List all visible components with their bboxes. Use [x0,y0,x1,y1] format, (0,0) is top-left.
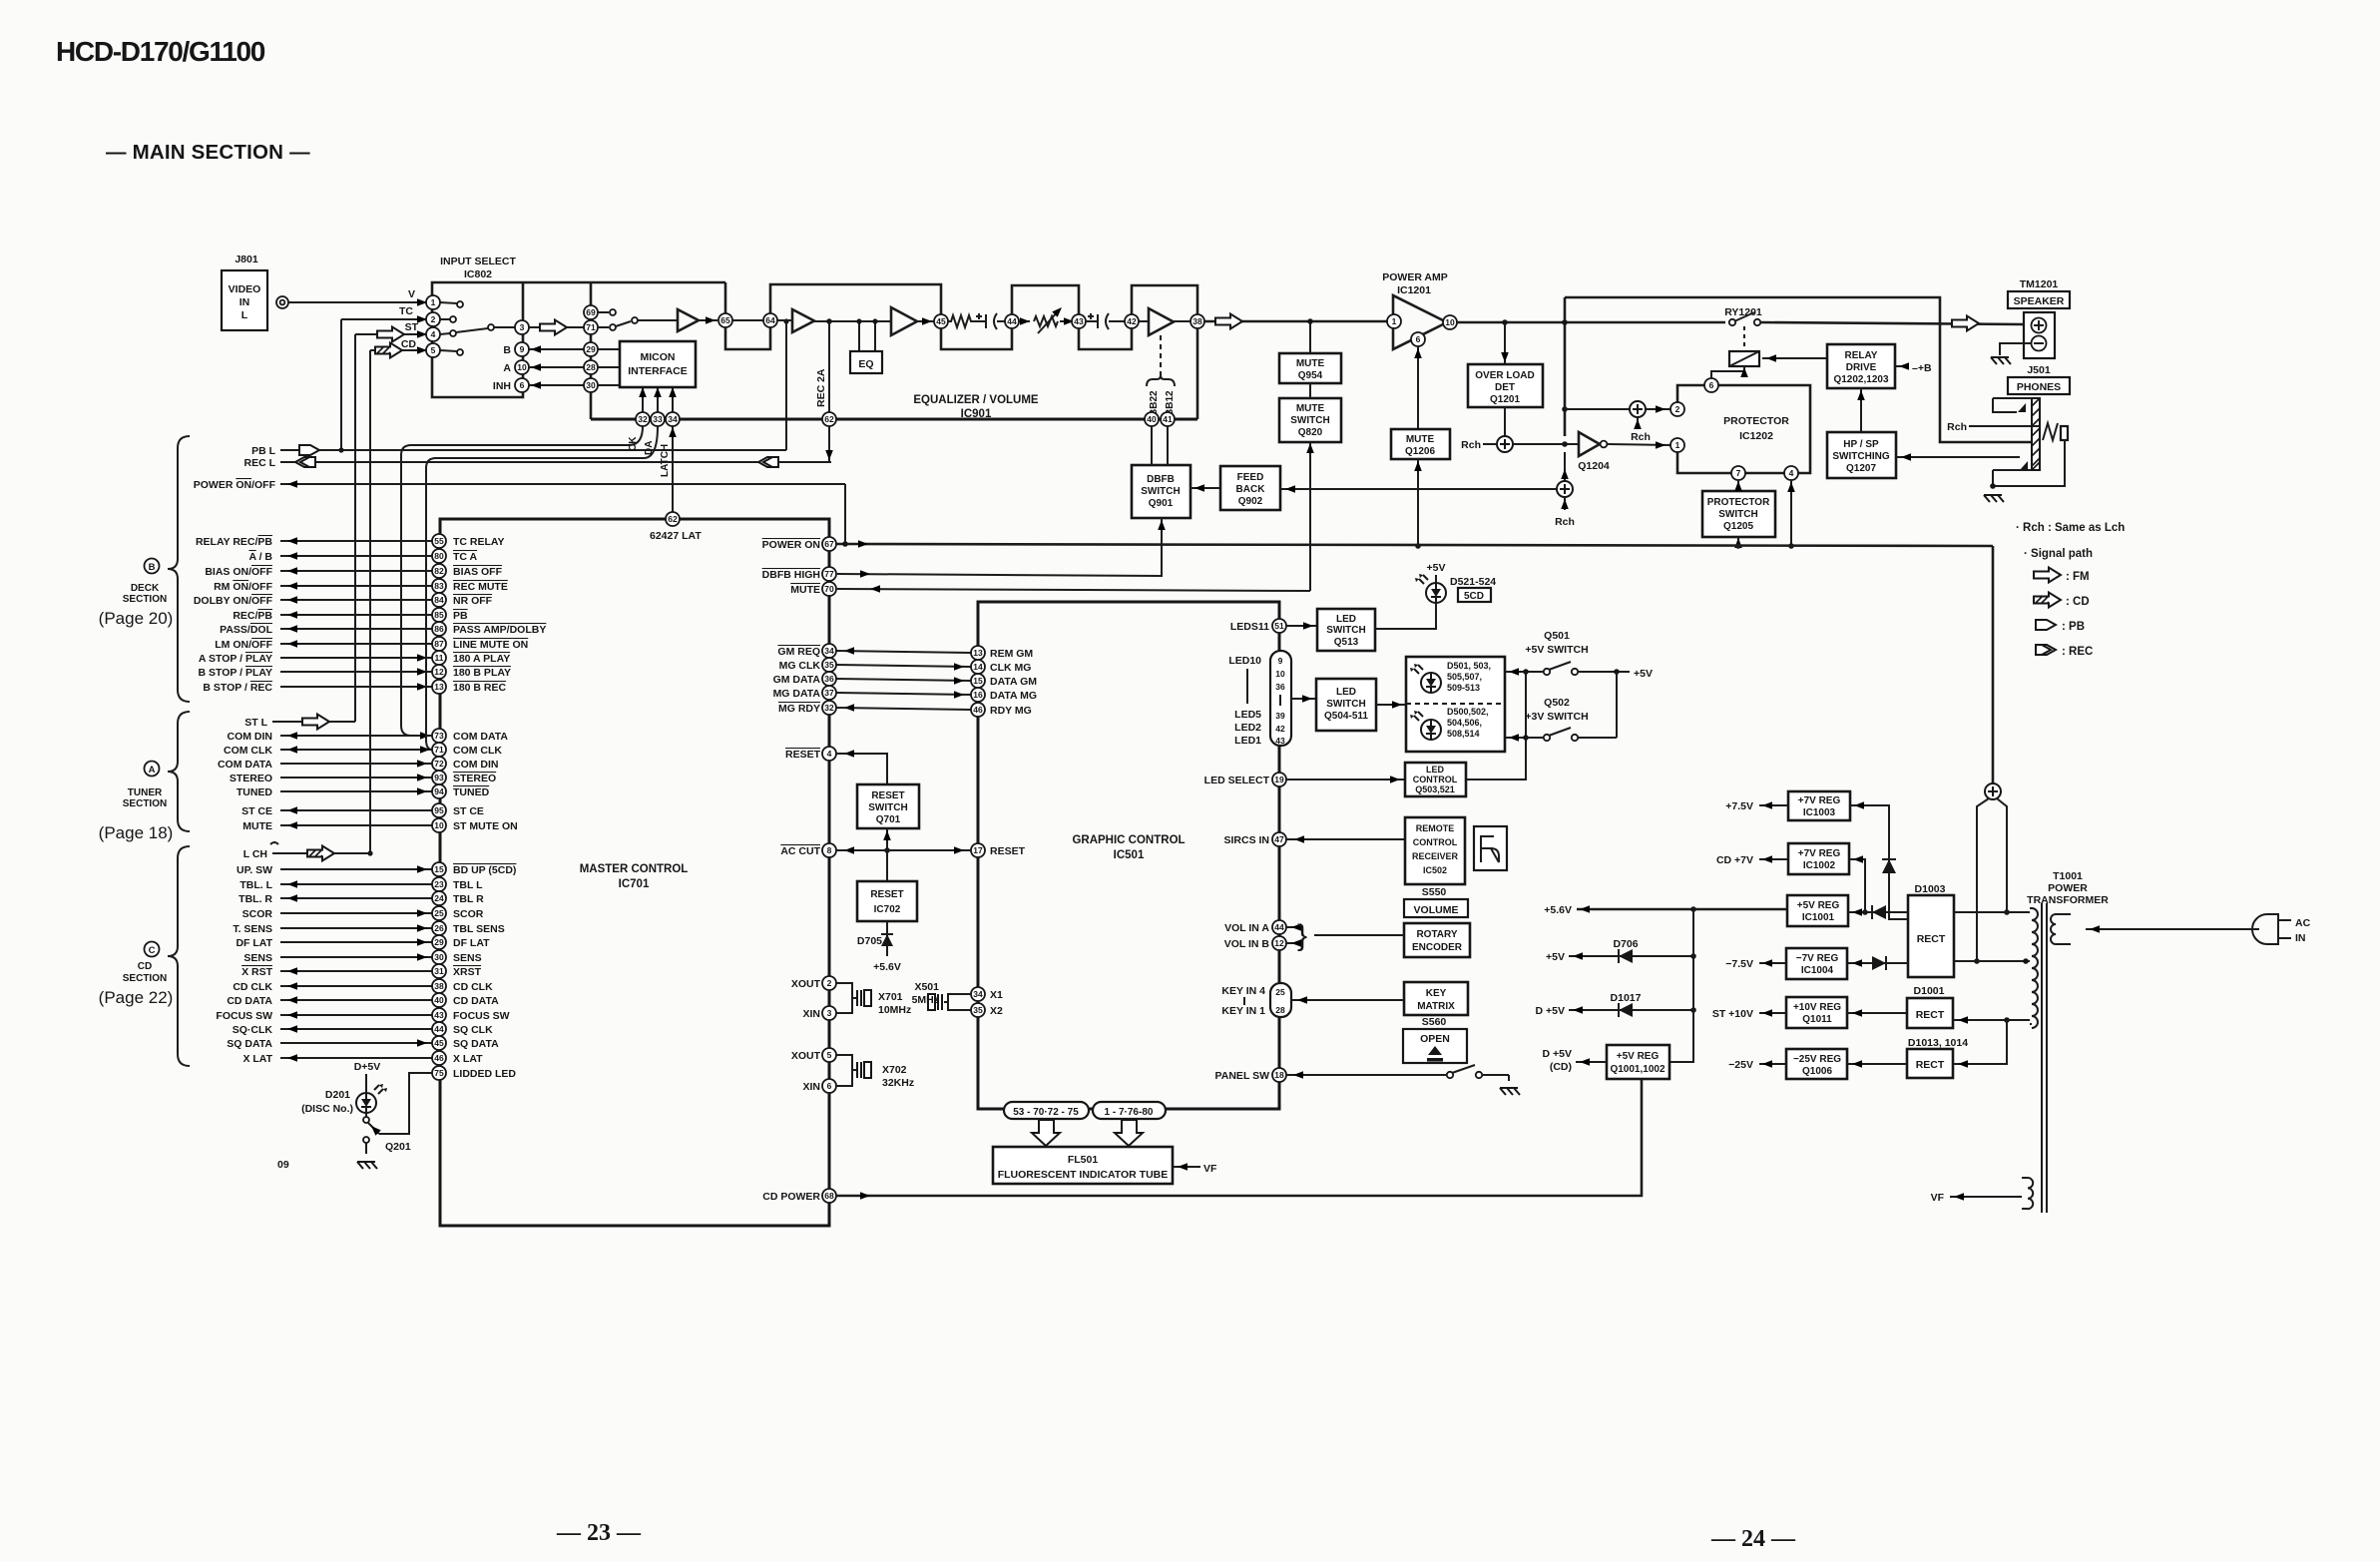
svg-text:LATCH: LATCH [660,444,671,477]
node SQ DATA row / pin 45 [227,1036,499,1050]
switch Q201 [365,1113,367,1117]
pin 2 protector [1670,402,1684,416]
svg-text:17: 17 [973,845,983,855]
svg-text:NR OFF: NR OFF [453,595,493,607]
pin 1 power amp [1387,314,1401,328]
svg-text:B STOP / REC: B STOP / REC [203,682,272,694]
svg-text:CD: CD [401,338,417,350]
regulator -25V REG Q1006 box [1786,1049,1847,1079]
wire 65 to 64 [732,319,763,321]
svg-text:STEREO: STEREO [453,773,496,784]
svg-text:80: 80 [434,551,444,561]
svg-text:Q1201: Q1201 [1490,394,1520,405]
svg-text:L CH: L CH [243,848,267,860]
svg-text:C: C [149,945,156,956]
svg-text:LED SELECT: LED SELECT [1204,775,1270,786]
svg-text:CD +7V: CD +7V [1716,854,1753,866]
svg-text:9: 9 [1278,656,1283,666]
transformer secondary coil [2032,908,2038,1028]
wire Q1205 to line [1737,537,1739,546]
svg-text:TC RELAY: TC RELAY [453,536,505,548]
svg-text:62427 LAT: 62427 LAT [650,530,702,542]
LED D521-524 [1415,574,1446,603]
svg-text:55: 55 [434,536,444,546]
svg-text:14: 14 [973,662,983,672]
svg-text:TC A: TC A [453,551,478,563]
wire Q1204 to protector pin1 [1608,444,1670,445]
wire TC vertical from PB L to IC802 pin 2 [340,319,342,450]
svg-text:LED5: LED5 [1234,709,1261,721]
ground phones [1984,495,2004,502]
svg-text:2: 2 [431,314,436,324]
legend PB [2036,620,2056,630]
svg-text:POWER ON/OFF: POWER ON/OFF [194,479,276,491]
regulator +10V REG Q1011 box [1786,997,1847,1028]
svg-text:RECT: RECT [1916,1059,1945,1071]
pin 6 power amp [1411,332,1425,346]
svg-text:19: 19 [1274,775,1284,784]
node FOCUS SW row / pin 43 [216,1008,509,1022]
wire bus end up to 38 [1196,328,1199,419]
svg-text:509-513: 509-513 [1447,683,1480,693]
svg-text:Q1006: Q1006 [1802,1066,1832,1077]
svg-text:SWITCHING: SWITCHING [1832,451,1889,462]
svg-text:POWER AMP: POWER AMP [1382,271,1448,283]
svg-text:FOCUS SW: FOCUS SW [453,1010,510,1022]
svg-text:7: 7 [1736,468,1741,478]
svg-text:IC501: IC501 [1114,849,1145,861]
svg-text:93: 93 [434,773,444,782]
svg-text:HCD-D170/G1100: HCD-D170/G1100 [56,36,265,67]
svg-text:13: 13 [434,682,444,692]
node CD DATA row / pin 40 [227,993,499,1007]
switch arm pin4 to pin3 [456,328,488,332]
svg-text:PANEL SW: PANEL SW [1215,1070,1270,1082]
svg-text:Rch: Rch [1631,431,1651,443]
svg-text:TRANSFORMER: TRANSFORMER [2027,894,2109,906]
svg-text:MG DATA: MG DATA [773,688,821,700]
wire Q954 to Q820 [1309,383,1311,398]
svg-text:PB: PB [453,610,468,622]
svg-text:IN: IN [239,296,250,308]
pin 33 [651,412,665,426]
wire VF into FL501 [1173,1166,1200,1168]
svg-text:43: 43 [1074,316,1084,326]
svg-text:LED: LED [1336,614,1356,625]
wire CD into pin5 with CD arrow [370,349,432,351]
wire 19 to LED CONTROL [1286,779,1405,781]
node SQ CLK row / pin 44 [233,1022,493,1036]
svg-text:3: 3 [520,322,525,332]
pin 4 [426,327,440,341]
pin 45 [934,314,948,328]
svg-text:X702: X702 [882,1064,907,1076]
svg-text:46: 46 [973,705,983,715]
svg-text:GM DATA: GM DATA [773,674,821,686]
svg-text:87: 87 [434,639,444,649]
svg-text:IC502: IC502 [1423,865,1447,875]
svg-text:INH: INH [493,380,511,392]
svg-text:3: 3 [827,1008,832,1018]
svg-text:+7V REG: +7V REG [1798,795,1841,806]
svg-text:Q902: Q902 [1238,496,1263,507]
svg-text:CONTROL: CONTROL [1413,837,1458,847]
svg-text:CLK MG: CLK MG [990,662,1031,674]
svg-text:SECTION: SECTION [123,973,167,984]
inverter Q1204 [1579,432,1600,456]
wire 69-65 feedback loop top [724,282,727,313]
node BIAS OFF row / pin 82 [205,564,502,578]
pin 15 DATA GM [971,674,985,688]
pin 62 on IC701 top [666,512,680,526]
svg-text:V: V [408,288,415,300]
svg-text:LED10: LED10 [1228,655,1261,667]
wire AC CUT to pin17 [836,849,971,851]
svg-text:REM GM: REM GM [990,648,1033,660]
node NR OFF row / pin 84 [194,593,493,607]
svg-text:SWITCH: SWITCH [1326,625,1365,636]
label -7.5V [1759,962,1786,964]
svg-text:ST L: ST L [244,717,267,729]
phone jack tip [2043,423,2058,440]
wire Q513 to D521 LED [1375,604,1436,629]
pin 35 X2 [971,1003,985,1017]
svg-text:180 B REC: 180 B REC [453,682,507,694]
svg-text:MUTE: MUTE [242,820,272,832]
pin 42 [1125,314,1139,328]
svg-text:FL501: FL501 [1068,1154,1099,1166]
svg-text:LM ON/OFF: LM ON/OFF [215,639,272,651]
diode on IC1003 branch [1882,859,1896,873]
svg-text:COM DATA: COM DATA [218,759,272,771]
svg-text:REC L: REC L [244,457,276,469]
wire signal line to Q954 [1309,321,1311,353]
svg-text:S550: S550 [1422,886,1447,898]
pin 16 DATA MG [971,688,985,702]
svg-text:RESET: RESET [870,889,903,900]
svg-text:X701: X701 [878,991,903,1003]
wire phones detect to HP/SP [1896,456,2020,458]
svg-text:X2: X2 [990,1005,1003,1017]
section label C CD SECTION (Page 22) [99,942,174,1008]
svg-text:6: 6 [520,380,525,390]
svg-text:44: 44 [1007,316,1017,326]
svg-text:OPEN: OPEN [1420,1033,1450,1045]
transistor PROTECTOR SWITCH Q1205 box [1702,491,1775,537]
node TBL R row / pin 24 [238,891,484,905]
svg-text:MATRIX: MATRIX [1417,1001,1455,1012]
svg-text:Q1207: Q1207 [1846,463,1876,474]
wire power-on line corner down to sum node [1992,546,1995,783]
wire switch commons to LED control [1466,672,1526,780]
svg-text:4: 4 [431,329,436,339]
node sum1 with Rch [1497,436,1513,452]
svg-text:T. SENS: T. SENS [233,923,272,935]
svg-text:FEED: FEED [1237,472,1264,483]
pin pills 53-70-72-75 and 1-7-76-80 [1004,1102,1089,1119]
svg-text:PROTECTOR: PROTECTOR [1723,415,1789,427]
transistor FEED BACK Q902 box [1220,466,1280,510]
brace tuner section [168,712,190,831]
wire 64 to A2 [777,319,792,321]
svg-text:Q1001,1002: Q1001,1002 [1610,1064,1665,1075]
svg-text:PHONES: PHONES [2017,381,2061,393]
transistor LED SWITCH Q504-511 box [1316,679,1376,731]
wire pa out [1457,321,1725,324]
svg-text:33: 33 [653,414,663,424]
svg-text:73: 73 [434,731,444,741]
wire transformer to D1001 [1953,1019,2030,1021]
wire 44 top loop to 43 [1012,285,1079,314]
wire to protector pin2 via sum3 [1565,408,1630,410]
svg-text:TUNED: TUNED [453,786,490,798]
op-amp A4 [1149,308,1174,335]
wire top feedback line to speaker return [1565,297,2040,442]
phone jack upper contacts [1993,398,2032,412]
wire ST into pin4 with FM arrow [355,333,432,335]
svg-text:ENCODER: ENCODER [1412,942,1463,953]
svg-text:43: 43 [434,1010,444,1020]
legend FM [2034,568,2061,583]
pin 6 protector [1704,378,1718,392]
pin 13 REM GM [971,646,985,660]
svg-text:SIRCS IN: SIRCS IN [1223,834,1269,846]
svg-text:−25V REG: −25V REG [1793,1054,1841,1065]
node chain 69/71/29/28/30 vertical [590,282,593,419]
svg-text:D1001: D1001 [1914,985,1945,997]
svg-text:LIDDED LED: LIDDED LED [453,1068,516,1080]
svg-text:J801: J801 [235,254,258,265]
svg-text:ST CE: ST CE [241,805,272,817]
wire 47 to receiver [1286,838,1405,840]
IC RESET IC702 box [857,881,917,921]
svg-text:D1017: D1017 [1611,992,1642,1004]
svg-text:CD CLK: CD CLK [453,981,493,993]
pin 46 RDY MG [971,703,985,717]
IC PROTECTOR IC1202 box [1677,385,1810,473]
wire Q201 to pin 75 [379,1073,432,1134]
svg-text:D521-524: D521-524 [1450,576,1496,588]
wire J801 to IC802 pin1 [288,301,432,303]
svg-text:2: 2 [827,978,832,988]
svg-text:SENS: SENS [453,952,482,964]
svg-text:ST MUTE ON: ST MUTE ON [453,820,518,832]
svg-text:+5V: +5V [1634,668,1653,680]
pin 10 [515,360,529,374]
svg-text:: FM: : FM [2066,571,2090,583]
wire Q701 to AC CUT line [886,828,888,881]
svg-text:T1001: T1001 [2053,870,2083,882]
node COM DATA row / pin 73 [228,729,509,743]
wire A4 to 38 [1174,320,1190,322]
svg-text:SQ DATA: SQ DATA [453,1038,499,1050]
node sum2 [1557,481,1573,497]
svg-text:+5V SWITCH: +5V SWITCH [1525,644,1588,656]
transistor DBFB SWITCH Q901 box [1132,465,1190,518]
svg-text:SWITCH: SWITCH [868,802,907,813]
wire HP/SP to relay drive [1860,388,1862,432]
svg-text:X RST: X RST [241,966,273,978]
svg-text:85: 85 [434,610,444,620]
svg-text:Q1204: Q1204 [1578,460,1610,472]
svg-text:OVER LOAD: OVER LOAD [1475,370,1534,381]
svg-text:REC MUTE: REC MUTE [453,581,508,593]
svg-text:45: 45 [434,1038,444,1048]
svg-text:6: 6 [827,1081,832,1091]
svg-text:EQ: EQ [858,358,873,370]
svg-text:: PB: : PB [2062,621,2085,633]
svg-text:10: 10 [434,820,444,830]
svg-text:34: 34 [668,414,678,424]
svg-text:BACK: BACK [1236,484,1266,495]
svg-text:DF LAT: DF LAT [236,937,272,949]
pin 30 [584,378,598,392]
ground panel sw [1500,1088,1520,1095]
main bus 62427 line [591,418,1197,421]
svg-text:DF LAT: DF LAT [453,937,490,949]
svg-text:8: 8 [827,845,832,855]
svg-text:CD: CD [138,961,152,972]
svg-text:PASS AMP/DOLBY: PASS AMP/DOLBY [453,624,546,636]
wires rotary encoder to vol pins [1286,926,1303,928]
svg-text:IC1202: IC1202 [1739,430,1773,442]
svg-text:45: 45 [936,316,946,326]
svg-text:180 A PLAY: 180 A PLAY [453,653,510,665]
svg-text:IC901: IC901 [961,408,992,420]
svg-text:MG RDY: MG RDY [778,703,820,715]
wire AC IN [2086,928,2259,930]
svg-text:1: 1 [1392,316,1397,326]
wire junction to OVER LOAD DET [1504,322,1506,364]
svg-text:Q901: Q901 [1149,498,1174,509]
svg-text:GRAPHIC CONTROL: GRAPHIC CONTROL [1072,834,1185,846]
svg-text:VOLUME: VOLUME [1414,904,1459,916]
pin 38 [1190,314,1204,328]
capacitor C943 [1086,314,1125,328]
svg-text:1: 1 [431,297,436,307]
svg-text:KEY: KEY [1426,988,1447,999]
svg-text:RELAY REC/PB: RELAY REC/PB [196,536,272,548]
wire pin4 down [1790,480,1792,546]
wire Q504 to LED box [1376,704,1406,706]
svg-text:–+B: –+B [1912,362,1932,374]
node 180 B PLAY row / pin 12 [198,665,511,679]
wire sum1 to Q1204 [1513,443,1579,445]
dashed line A4 to BB brace [1160,335,1162,375]
svg-text:HP / SP: HP / SP [1843,439,1879,450]
svg-text:IC1004: IC1004 [1801,965,1834,976]
svg-text:5: 5 [827,1050,832,1060]
node COM DIN row / pin 72 [218,757,499,771]
svg-text:X1: X1 [990,989,1003,1001]
IC IC802 INPUT SELECT box [432,256,523,397]
svg-text:X501: X501 [914,981,939,993]
pin 2 [426,312,440,326]
svg-text:504,506,: 504,506, [1447,718,1482,728]
svg-text:15: 15 [434,864,444,874]
svg-text:44: 44 [434,1024,444,1034]
svg-text:35: 35 [973,1005,983,1015]
svg-text:FOCUS SW: FOCUS SW [216,1010,272,1022]
svg-text:SCOR: SCOR [453,908,484,920]
svg-text:VF: VF [1203,1163,1217,1175]
svg-text:Q513: Q513 [1334,637,1359,648]
svg-text:36: 36 [824,674,834,684]
svg-text:SECTION: SECTION [123,594,167,605]
svg-text:SQ CLK: SQ CLK [453,1024,493,1036]
svg-text:: CD: : CD [2066,596,2090,608]
node PASS AMP/DOLBY row / pin 86 [220,622,546,636]
node ST CE row / pin 95 [241,803,484,817]
label VF [1950,1196,2022,1198]
wire speaker minus to ground [2000,343,2031,355]
svg-text:BD UP (5CD): BD UP (5CD) [453,864,516,876]
svg-text:UP. SW: UP. SW [237,864,272,876]
node BD UP (5CD) row / pin 15 [237,862,516,876]
wire 67 power-on line [836,544,1993,546]
svg-text:SCOR: SCOR [242,908,273,920]
node LIDDED LED row / pin 75 [432,1066,516,1080]
svg-text:CD DATA: CD DATA [227,995,272,1007]
svg-text:DET: DET [1495,382,1515,393]
svg-text:IC702: IC702 [874,904,901,915]
svg-text:1: 1 [1675,440,1680,450]
svg-text:18: 18 [1274,1070,1284,1080]
block arrows to FL501 [1032,1120,1060,1146]
svg-text:}: } [1297,919,1307,952]
svg-text:+7.5V: +7.5V [1725,800,1753,812]
transistor MUTE Q1206 box [1391,429,1450,459]
svg-text:12: 12 [1274,938,1284,948]
pin 4 protector [1784,466,1798,480]
svg-text:+5.6V: +5.6V [873,961,901,973]
pin 1 protector [1670,438,1684,452]
ground Q201 [357,1162,377,1169]
wire pin6 to coil [1711,366,1744,378]
wire CK curve to pin 73 [401,426,643,736]
wire relay drive to coil [1762,357,1827,359]
AC plug symbol [2252,914,2278,944]
svg-text:LED1: LED1 [1234,735,1261,747]
svg-text:TBL SENS: TBL SENS [453,923,505,935]
pin 41 [1161,412,1175,426]
svg-text:−7.5V: −7.5V [1725,958,1753,970]
svg-text:SWITCH: SWITCH [1718,509,1757,520]
svg-text:37: 37 [824,688,834,698]
svg-text:· Signal path: · Signal path [2024,548,2093,560]
svg-text:34: 34 [824,646,834,656]
transistor LED CONTROL Q503,521 box [1405,763,1466,796]
svg-text:A: A [149,765,156,776]
svg-text:RDY MG: RDY MG [990,705,1032,717]
wire Q1206 to pin6 [1417,346,1419,429]
svg-text:11: 11 [435,653,444,663]
svg-text:MUTE: MUTE [1296,403,1325,414]
wire 42 top loop to 38 [1132,285,1197,314]
svg-text:COM DIN: COM DIN [453,759,499,771]
pin 3 [515,320,529,334]
label 5CD boxed [1458,588,1491,602]
svg-text:12: 12 [434,667,444,677]
svg-text:IC1201: IC1201 [1397,284,1431,296]
crystal X501 5MHz [944,994,971,1010]
svg-text:10: 10 [1275,669,1285,679]
svg-text:SWITCH: SWITCH [1326,699,1365,710]
wire Q902 right to sum node [1280,488,1557,490]
svg-text:DECK: DECK [131,583,160,594]
svg-text:Q201: Q201 [385,1141,411,1153]
svg-text:RESET: RESET [785,749,821,761]
